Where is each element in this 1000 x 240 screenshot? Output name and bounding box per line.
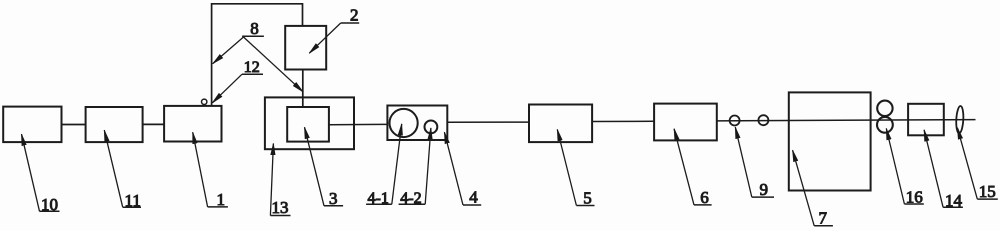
label 4-2: [399, 128, 431, 207]
circle 4-2: [425, 121, 438, 134]
wire: [592, 120, 654, 122]
label 13: [270, 144, 290, 218]
svg-text:5: 5: [583, 189, 592, 208]
ellipse 15: [956, 106, 964, 134]
svg-text:12: 12: [244, 59, 260, 76]
roller 16 bottom: [877, 117, 893, 133]
box 1: [164, 106, 221, 142]
box 11: [86, 107, 143, 142]
svg-text:13: 13: [272, 198, 289, 217]
wire: [143, 123, 165, 125]
box 2: [285, 26, 326, 70]
label 4-1: [366, 124, 402, 207]
node circle on box 1: [202, 99, 207, 104]
label 5: [557, 130, 594, 208]
label 2: [309, 6, 359, 54]
svg-text:8: 8: [250, 19, 258, 38]
wire: [717, 120, 976, 121]
roller 16 top: [877, 101, 892, 116]
label 7: [793, 150, 833, 227]
label 1: [193, 132, 228, 209]
label 15: [957, 128, 997, 201]
svg-text:4: 4: [469, 188, 478, 207]
box 7: [789, 92, 871, 190]
wire: [212, 4, 303, 106]
box 5: [529, 105, 592, 143]
box 6: [654, 104, 717, 141]
label 10: [22, 134, 60, 214]
svg-text:2: 2: [350, 6, 359, 25]
label 14: [924, 130, 963, 210]
label 3: [305, 127, 344, 208]
label 11: [104, 130, 141, 210]
wire: [62, 124, 86, 126]
svg-text:6: 6: [700, 188, 709, 207]
svg-text:7: 7: [819, 208, 828, 227]
label 9: [735, 127, 774, 199]
box 13: [265, 97, 354, 149]
svg-text:1: 1: [217, 190, 226, 209]
svg-text:15: 15: [979, 182, 996, 201]
label 12: [212, 59, 263, 103]
wire: [302, 70, 304, 108]
box 3: [287, 107, 329, 142]
label 4: [444, 132, 481, 207]
box 4: [387, 106, 447, 141]
circle 9a: [730, 116, 740, 126]
svg-text:9: 9: [760, 180, 769, 199]
circle 9b: [758, 115, 768, 125]
label 6: [674, 129, 712, 207]
wire: [447, 121, 529, 123]
box 10: [3, 107, 61, 143]
wire: [329, 123, 388, 125]
label 8: [213, 19, 303, 92]
box 14: [908, 104, 944, 136]
circle 4-1: [390, 109, 418, 137]
label 16: [886, 129, 924, 207]
